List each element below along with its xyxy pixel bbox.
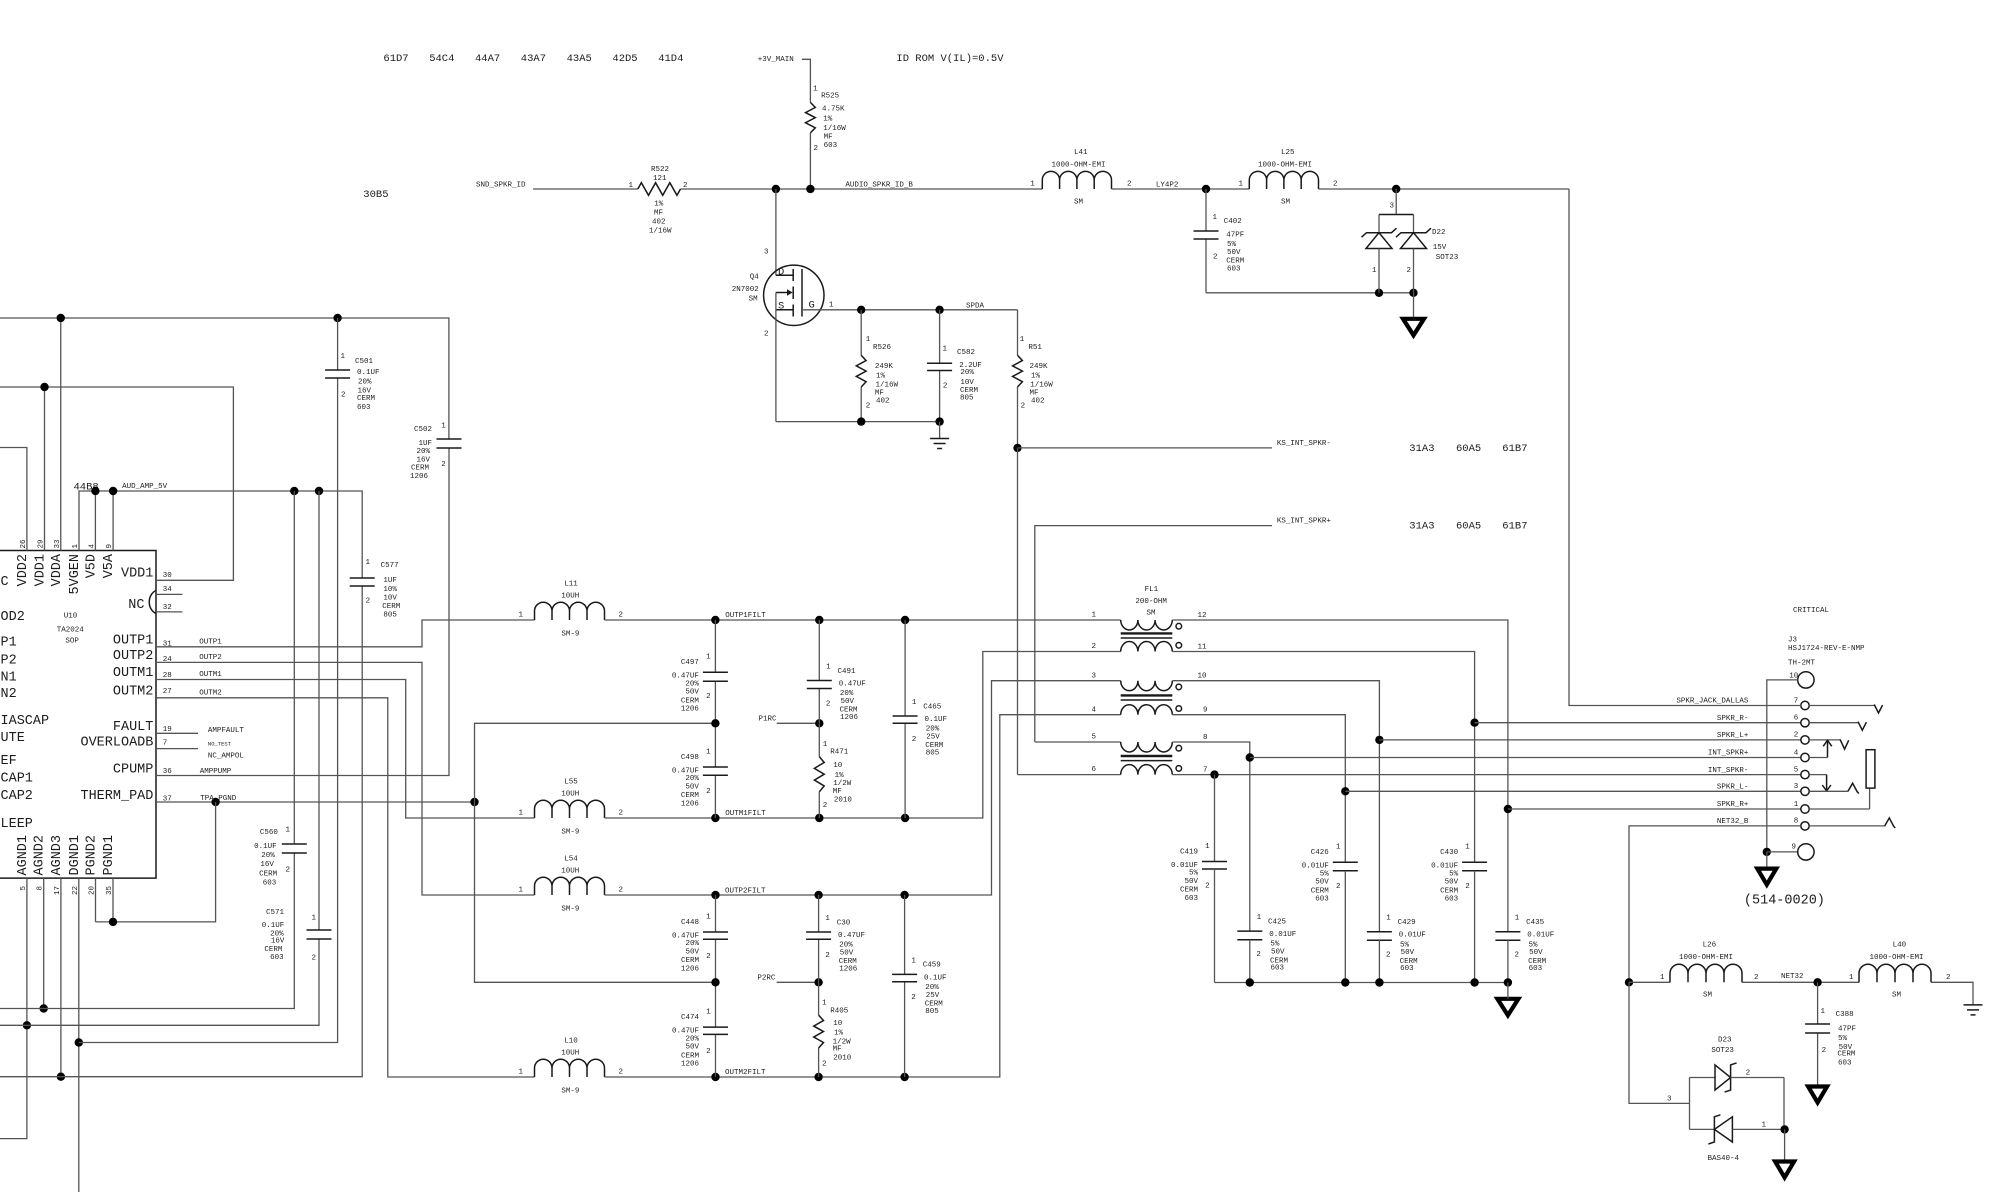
svg-text:1: 1 xyxy=(706,749,711,757)
svg-text:KS_INT_SPKR+: KS_INT_SPKR+ xyxy=(1277,518,1332,526)
svg-text:2: 2 xyxy=(1091,643,1096,651)
svg-text:1000-OHM-EMI: 1000-OHM-EMI xyxy=(1052,161,1106,169)
svg-text:C435: C435 xyxy=(1526,919,1545,927)
svg-text:L55: L55 xyxy=(564,779,578,787)
svg-text:R525: R525 xyxy=(821,93,840,101)
svg-text:43A7: 43A7 xyxy=(521,53,546,65)
svg-text:16V: 16V xyxy=(416,457,430,465)
net AMPFAULT stub xyxy=(156,727,244,735)
svg-text:41D4: 41D4 xyxy=(658,53,683,65)
svg-text:2: 2 xyxy=(366,598,371,606)
svg-text:CERM: CERM xyxy=(681,957,700,965)
svg-text:7: 7 xyxy=(163,740,168,748)
svg-text:10UH: 10UH xyxy=(561,593,579,601)
svg-text:C491: C491 xyxy=(838,668,857,676)
capacitor C425 0.01UF xyxy=(1237,914,1296,973)
svg-text:50V: 50V xyxy=(1315,879,1329,887)
IC top pin names xyxy=(16,539,117,595)
svg-text:1: 1 xyxy=(1205,843,1210,851)
wire cap ground bus xyxy=(1215,869,1513,987)
svg-text:V5A: V5A xyxy=(102,553,117,578)
svg-text:CERM: CERM xyxy=(382,603,401,611)
svg-text:44A7: 44A7 xyxy=(475,53,500,65)
svg-text:5%: 5% xyxy=(1400,941,1410,949)
svg-text:1%: 1% xyxy=(834,1030,844,1038)
svg-text:603: 603 xyxy=(270,954,284,962)
svg-text:1: 1 xyxy=(813,85,818,93)
net KS_INT_SPKR- wire xyxy=(1013,440,1527,455)
svg-text:C388: C388 xyxy=(1836,1011,1854,1019)
svg-text:2: 2 xyxy=(441,461,446,469)
connector J3 pin 6 SPKR_R- xyxy=(1717,715,1809,727)
svg-text:MF: MF xyxy=(824,133,833,141)
svg-text:R526: R526 xyxy=(873,344,892,352)
svg-text:U10: U10 xyxy=(64,613,78,621)
svg-text:OUTM2: OUTM2 xyxy=(113,684,154,699)
svg-text:603: 603 xyxy=(357,404,371,412)
svg-text:OUTM2: OUTM2 xyxy=(199,689,222,697)
svg-text:16V: 16V xyxy=(271,938,285,946)
svg-text:MF: MF xyxy=(833,1046,842,1054)
svg-text:10: 10 xyxy=(1198,673,1208,681)
svg-text:CERM: CERM xyxy=(1180,887,1199,895)
svg-text:CERM: CERM xyxy=(1226,258,1245,266)
svg-text:11: 11 xyxy=(1198,643,1208,651)
svg-text:2: 2 xyxy=(341,392,346,400)
svg-text:10: 10 xyxy=(833,762,843,770)
svg-text:20%: 20% xyxy=(685,940,699,948)
net OUTM2FILT wire xyxy=(605,715,1121,1082)
svg-text:20%: 20% xyxy=(416,448,430,456)
svg-text:50V: 50V xyxy=(1227,249,1241,257)
svg-text:1: 1 xyxy=(866,336,871,344)
diode D23 BAS40-4 SOT23 xyxy=(1629,982,1789,1163)
sheet reference labels xyxy=(383,53,683,65)
wire pin 17 AGND3 xyxy=(57,878,65,1081)
wire Q4 source bottom xyxy=(776,417,944,425)
resistor R471 10 xyxy=(814,723,852,818)
svg-text:1: 1 xyxy=(1762,1122,1767,1130)
svg-text:4.75K: 4.75K xyxy=(822,106,845,114)
svg-text:C465: C465 xyxy=(923,703,942,711)
svg-text:2: 2 xyxy=(1822,1047,1827,1055)
svg-text:OUTP2FILT: OUTP2FILT xyxy=(725,888,766,896)
svg-text:1%: 1% xyxy=(876,373,886,381)
wire AUDIO_SPKR_ID_B xyxy=(681,182,1043,194)
svg-text:3: 3 xyxy=(1091,672,1096,680)
svg-text:402: 402 xyxy=(652,219,666,227)
svg-text:1: 1 xyxy=(706,914,711,922)
svg-text:3: 3 xyxy=(1667,1096,1672,1104)
svg-text:VDD1: VDD1 xyxy=(121,567,153,582)
capacitor C501 0.1UF xyxy=(325,318,379,412)
svg-text:VDD1: VDD1 xyxy=(34,554,49,586)
note CRITICAL xyxy=(1793,607,1830,615)
svg-text:20%: 20% xyxy=(926,726,940,734)
svg-text:2: 2 xyxy=(1794,732,1799,740)
svg-text:1: 1 xyxy=(825,915,830,923)
svg-text:C501: C501 xyxy=(355,358,374,366)
svg-text:20%: 20% xyxy=(685,680,699,688)
svg-text:50V: 50V xyxy=(1184,878,1198,886)
svg-text:KS_INT_SPKR-: KS_INT_SPKR- xyxy=(1277,440,1331,448)
wire R51 to FL1 pin 6 xyxy=(1018,448,1121,775)
net KS_INT_SPKR+ wire xyxy=(1035,518,1528,742)
svg-text:0.1UF: 0.1UF xyxy=(254,843,277,851)
svg-text:10V: 10V xyxy=(960,379,974,387)
wire pin 33 VDDA riser xyxy=(60,318,62,551)
svg-text:20%: 20% xyxy=(261,852,275,860)
svg-text:1: 1 xyxy=(340,353,345,361)
svg-text:SM: SM xyxy=(1703,992,1713,1000)
svg-text:30B5: 30B5 xyxy=(363,189,388,201)
svg-text:OUTP1: OUTP1 xyxy=(113,634,154,649)
svg-text:50V: 50V xyxy=(1401,949,1415,957)
svg-text:C426: C426 xyxy=(1311,849,1330,857)
capacitor C582 2.2UF xyxy=(927,310,982,422)
svg-text:50V: 50V xyxy=(685,1044,699,1052)
net OUTP2FILT wire xyxy=(605,681,1121,900)
net OUTP1FILT wire xyxy=(605,612,1121,624)
net SPKR_L- wire from FL1 pin 9 xyxy=(1172,715,1801,863)
svg-text:CERM: CERM xyxy=(259,870,278,878)
svg-text:SM: SM xyxy=(1281,199,1291,207)
svg-text:1: 1 xyxy=(1386,915,1391,923)
svg-text:2: 2 xyxy=(1205,882,1210,890)
J3 right side switch contacts xyxy=(1809,705,1895,829)
svg-text:1: 1 xyxy=(1372,267,1377,275)
svg-text:5%: 5% xyxy=(1529,941,1539,949)
svg-text:50V: 50V xyxy=(685,783,699,791)
svg-text:1: 1 xyxy=(1212,214,1217,222)
svg-text:2: 2 xyxy=(813,145,818,153)
svg-text:3: 3 xyxy=(1389,203,1394,211)
svg-text:1: 1 xyxy=(1849,974,1854,982)
inductor L54 10UH xyxy=(518,856,623,914)
svg-text:AGND1: AGND1 xyxy=(16,835,31,876)
svg-text:12: 12 xyxy=(1198,612,1207,620)
svg-text:MF: MF xyxy=(1030,390,1039,398)
svg-text:P2RC: P2RC xyxy=(757,975,776,983)
net SPDA wire from Q4 gate xyxy=(802,302,1018,314)
svg-text:SM: SM xyxy=(1147,610,1157,618)
svg-text:31A3: 31A3 xyxy=(1409,443,1434,455)
svg-text:10UH: 10UH xyxy=(561,791,579,799)
svg-text:L41: L41 xyxy=(1074,149,1088,157)
svg-text:1: 1 xyxy=(518,887,523,895)
svg-text:1%: 1% xyxy=(1031,373,1041,381)
svg-text:2: 2 xyxy=(312,954,317,962)
svg-text:0.01UF: 0.01UF xyxy=(1399,932,1426,940)
svg-text:15V: 15V xyxy=(1433,244,1447,252)
note ID ROM V(IL)=0.5V xyxy=(896,53,1004,65)
NC pin stubs 34 32 xyxy=(156,594,182,612)
svg-text:50V: 50V xyxy=(840,949,854,957)
svg-text:D: D xyxy=(778,267,784,279)
svg-text:L40: L40 xyxy=(1893,942,1907,950)
wire pin 29 VDD1 riser xyxy=(44,387,46,551)
svg-text:5: 5 xyxy=(1794,766,1799,774)
svg-text:SPKR_JACK_DALLAS: SPKR_JACK_DALLAS xyxy=(1676,698,1749,706)
svg-text:16V: 16V xyxy=(260,861,274,869)
svg-text:C429: C429 xyxy=(1398,919,1416,927)
net SPKR_R- wire from FL1 pin 11 xyxy=(1172,652,1801,863)
svg-text:50V: 50V xyxy=(1445,879,1459,887)
IC pin numbers right xyxy=(163,572,173,803)
capacitor C577 1UF xyxy=(350,559,401,619)
svg-text:CERM: CERM xyxy=(411,464,430,472)
svg-text:2: 2 xyxy=(1021,403,1026,411)
svg-text:25V: 25V xyxy=(926,992,940,1000)
svg-text:AGND2: AGND2 xyxy=(33,835,48,876)
svg-text:47PF: 47PF xyxy=(1838,1025,1856,1033)
svg-text:200-OHM: 200-OHM xyxy=(1135,598,1167,606)
transformer FL1 200-OHM xyxy=(1091,586,1207,775)
svg-text:1: 1 xyxy=(826,663,831,671)
svg-text:25V: 25V xyxy=(926,733,940,741)
svg-text:CERM: CERM xyxy=(1837,1051,1856,1059)
svg-text:36: 36 xyxy=(163,768,173,776)
svg-text:L25: L25 xyxy=(1281,149,1295,157)
connector J3 pin 1 SPKR_R+ xyxy=(1717,801,1809,813)
svg-text:249K: 249K xyxy=(875,363,894,371)
svg-text:R522: R522 xyxy=(651,166,669,174)
capacitor C497 0.47UF xyxy=(672,620,728,723)
svg-text:6: 6 xyxy=(1091,766,1096,774)
svg-text:SPKR_R+: SPKR_R+ xyxy=(1717,801,1749,809)
svg-text:CRITICAL: CRITICAL xyxy=(1793,607,1830,615)
svg-text:AMPFAULT: AMPFAULT xyxy=(208,727,245,735)
wire SPKR_JACK_DALLAS from top xyxy=(1569,189,1801,706)
svg-text:SM-9: SM-9 xyxy=(561,906,579,914)
svg-text:1206: 1206 xyxy=(681,800,700,808)
svg-text:CERM: CERM xyxy=(681,1052,700,1060)
svg-text:NO_TEST: NO_TEST xyxy=(208,740,232,747)
wire 5V rail y=318 xyxy=(0,314,449,439)
resistor R405 10 xyxy=(814,982,852,1077)
svg-text:C577: C577 xyxy=(381,562,399,570)
svg-text:5%: 5% xyxy=(1270,941,1280,949)
svg-text:SOP: SOP xyxy=(65,638,79,646)
svg-text:C: C xyxy=(1,575,9,590)
svg-text:R51: R51 xyxy=(1028,344,1042,352)
svg-text:1: 1 xyxy=(823,741,828,749)
wire C560 top riser xyxy=(293,491,295,844)
svg-text:MF: MF xyxy=(654,210,663,218)
wire +3V_MAIN to R525 xyxy=(802,59,811,102)
svg-text:10: 10 xyxy=(1789,672,1799,680)
capacitor C491 0.47UF xyxy=(807,620,866,723)
svg-text:1: 1 xyxy=(911,957,916,965)
svg-text:FL1: FL1 xyxy=(1145,586,1159,594)
svg-text:2: 2 xyxy=(619,1069,624,1077)
svg-text:1206: 1206 xyxy=(681,965,700,973)
svg-text:10V: 10V xyxy=(383,595,397,603)
svg-text:50V: 50V xyxy=(1529,949,1543,957)
svg-text:EF: EF xyxy=(1,754,17,769)
svg-text:NET32_B: NET32_B xyxy=(1717,818,1749,826)
svg-text:60A5: 60A5 xyxy=(1456,520,1481,532)
svg-text:C425: C425 xyxy=(1268,918,1287,926)
svg-text:2: 2 xyxy=(706,788,711,796)
svg-text:SM-9: SM-9 xyxy=(561,631,579,639)
svg-text:60A5: 60A5 xyxy=(1456,443,1481,455)
svg-text:26: 26 xyxy=(20,539,28,549)
svg-text:SOT23: SOT23 xyxy=(1436,254,1459,262)
svg-text:LY4P2: LY4P2 xyxy=(1156,182,1179,190)
op-amp U10 TA2024 amplifier IC box xyxy=(0,551,156,879)
svg-text:1%: 1% xyxy=(835,772,845,780)
svg-text:N2: N2 xyxy=(1,687,17,702)
svg-text:2: 2 xyxy=(943,382,948,390)
svg-text:1/16W: 1/16W xyxy=(823,125,846,133)
svg-text:1000-OHM-EMI: 1000-OHM-EMI xyxy=(1679,954,1733,962)
part number (514-0020) xyxy=(1744,894,1825,909)
svg-text:603: 603 xyxy=(1315,896,1329,904)
capacitor C402 47PF xyxy=(1194,189,1245,293)
connector J3 pin 9 xyxy=(1791,843,1814,860)
IC right side pin names xyxy=(80,567,156,805)
inductor L55 10UH xyxy=(518,779,623,837)
svg-text:1: 1 xyxy=(312,915,317,923)
svg-text:OUTM1: OUTM1 xyxy=(199,671,222,679)
svg-text:1: 1 xyxy=(1336,844,1341,852)
capacitor C498 0.47UF xyxy=(672,723,728,818)
svg-text:1/16W: 1/16W xyxy=(649,228,672,236)
svg-text:603: 603 xyxy=(824,142,838,150)
inductor L41 1000-OHM-EMI xyxy=(1030,149,1131,207)
wire pin 22 DGND1 xyxy=(75,878,83,1192)
svg-text:1: 1 xyxy=(912,699,917,707)
inductor L40 1000-OHM-EMI xyxy=(1849,942,1951,1000)
capacitor C502 1UF xyxy=(410,423,462,481)
capacitor C448 0.47UF xyxy=(672,895,728,982)
svg-text:0.01UF: 0.01UF xyxy=(1527,932,1554,940)
svg-text:7: 7 xyxy=(1794,697,1799,705)
svg-text:0.47UF: 0.47UF xyxy=(672,1028,699,1036)
svg-text:P2: P2 xyxy=(1,654,17,669)
svg-text:0.1UF: 0.1UF xyxy=(262,922,285,930)
svg-text:3: 3 xyxy=(1794,783,1799,791)
svg-text:C582: C582 xyxy=(957,349,975,357)
svg-text:L10: L10 xyxy=(564,1038,578,1046)
svg-text:1: 1 xyxy=(1257,914,1262,922)
svg-text:ID ROM V(IL)=0.5V: ID ROM V(IL)=0.5V xyxy=(896,53,1004,65)
svg-text:8: 8 xyxy=(1794,818,1799,826)
svg-text:C497: C497 xyxy=(681,659,699,667)
net TPA_PGND wire xyxy=(156,795,479,806)
svg-text:2: 2 xyxy=(619,810,624,818)
svg-text:50V: 50V xyxy=(685,689,699,697)
svg-text:PGND2: PGND2 xyxy=(85,835,100,876)
net OUTM1 wire xyxy=(156,671,535,818)
svg-text:0.47UF: 0.47UF xyxy=(672,673,699,681)
svg-text:1: 1 xyxy=(1820,1008,1825,1016)
connector J3 pin 4 INT_SPKR+ xyxy=(1708,749,1809,761)
svg-text:THERM_PAD: THERM_PAD xyxy=(80,789,153,804)
svg-text:OUTP2: OUTP2 xyxy=(199,654,222,662)
svg-text:OUTP1: OUTP1 xyxy=(199,639,222,647)
svg-text:CAP1: CAP1 xyxy=(1,772,33,787)
svg-text:2: 2 xyxy=(826,700,831,708)
svg-text:1206: 1206 xyxy=(840,714,859,722)
svg-text:603: 603 xyxy=(1445,896,1459,904)
connector J3 pin 2 SPKR_L+ xyxy=(1717,732,1809,744)
svg-text:61B7: 61B7 xyxy=(1502,443,1527,455)
connector J3 pin 3 SPKR_L- xyxy=(1717,783,1809,795)
svg-text:0.1UF: 0.1UF xyxy=(357,369,380,377)
svg-text:C498: C498 xyxy=(681,754,699,762)
wire AGND rail y=1008.5 to C560 xyxy=(0,853,294,1009)
svg-text:2: 2 xyxy=(823,802,828,810)
IC left side clipped pin names xyxy=(1,575,50,832)
svg-text:2: 2 xyxy=(1946,974,1951,982)
svg-text:20%: 20% xyxy=(685,775,699,783)
svg-text:C402: C402 xyxy=(1224,218,1242,226)
svg-text:MF: MF xyxy=(875,390,884,398)
svg-text:2: 2 xyxy=(1465,883,1470,891)
wire TPA_PGND riser x=474.5 xyxy=(475,723,716,982)
svg-text:VDDA: VDDA xyxy=(50,553,65,586)
svg-text:5%: 5% xyxy=(1227,241,1237,249)
svg-text:9: 9 xyxy=(1203,707,1208,715)
resistor R522 121 xyxy=(628,166,687,236)
connector J3 pin 7 SPKR_JACK_DALLAS xyxy=(1676,697,1809,709)
svg-text:1206: 1206 xyxy=(839,966,858,974)
net OUTP2 wire xyxy=(156,654,535,895)
svg-text:61B7: 61B7 xyxy=(1502,520,1527,532)
svg-text:32: 32 xyxy=(163,604,172,612)
svg-text:0.1UF: 0.1UF xyxy=(925,716,948,724)
svg-text:1: 1 xyxy=(1091,612,1096,620)
svg-text:27: 27 xyxy=(163,688,172,696)
capacitor C430 0.01UF xyxy=(1431,844,1487,904)
svg-text:402: 402 xyxy=(1031,398,1045,406)
svg-text:SM: SM xyxy=(1074,199,1084,207)
svg-text:MF: MF xyxy=(833,788,842,796)
svg-text:1: 1 xyxy=(628,182,633,190)
svg-text:3: 3 xyxy=(764,249,769,257)
svg-text:OUTP2: OUTP2 xyxy=(113,649,154,664)
inductor L11 10UH xyxy=(518,581,623,639)
svg-text:0.47UF: 0.47UF xyxy=(838,932,865,940)
svg-text:0.47UF: 0.47UF xyxy=(672,932,699,940)
svg-text:2: 2 xyxy=(1336,883,1341,891)
svg-text:2: 2 xyxy=(866,403,871,411)
svg-text:7: 7 xyxy=(1203,766,1208,774)
svg-text:1: 1 xyxy=(706,1009,711,1017)
svg-text:OUTM1FILT: OUTM1FILT xyxy=(725,810,766,818)
svg-text:NET32: NET32 xyxy=(1781,973,1804,981)
svg-text:2: 2 xyxy=(911,994,916,1002)
svg-text:AUD_AMP_5V: AUD_AMP_5V xyxy=(122,483,168,491)
svg-text:CERM: CERM xyxy=(357,395,376,403)
svg-text:2: 2 xyxy=(764,331,769,339)
svg-text:1: 1 xyxy=(1030,181,1035,189)
svg-text:5%: 5% xyxy=(1449,870,1459,878)
svg-text:20%: 20% xyxy=(358,379,372,387)
capacitor C435 0.01UF xyxy=(1495,915,1554,974)
svg-text:UTE: UTE xyxy=(1,731,25,746)
capacitor C30 0.47UF xyxy=(806,895,865,982)
svg-text:HSJ1724-REV-E-NMP: HSJ1724-REV-E-NMP xyxy=(1788,645,1865,653)
svg-text:5VGEN: 5VGEN xyxy=(68,554,83,595)
svg-text:CERM: CERM xyxy=(681,792,700,800)
svg-text:CERM: CERM xyxy=(681,697,700,705)
net SPKR_L+ wire from FL1 pin 10 xyxy=(1172,681,1801,932)
svg-text:CERM: CERM xyxy=(264,946,283,954)
svg-text:4: 4 xyxy=(1091,706,1096,714)
